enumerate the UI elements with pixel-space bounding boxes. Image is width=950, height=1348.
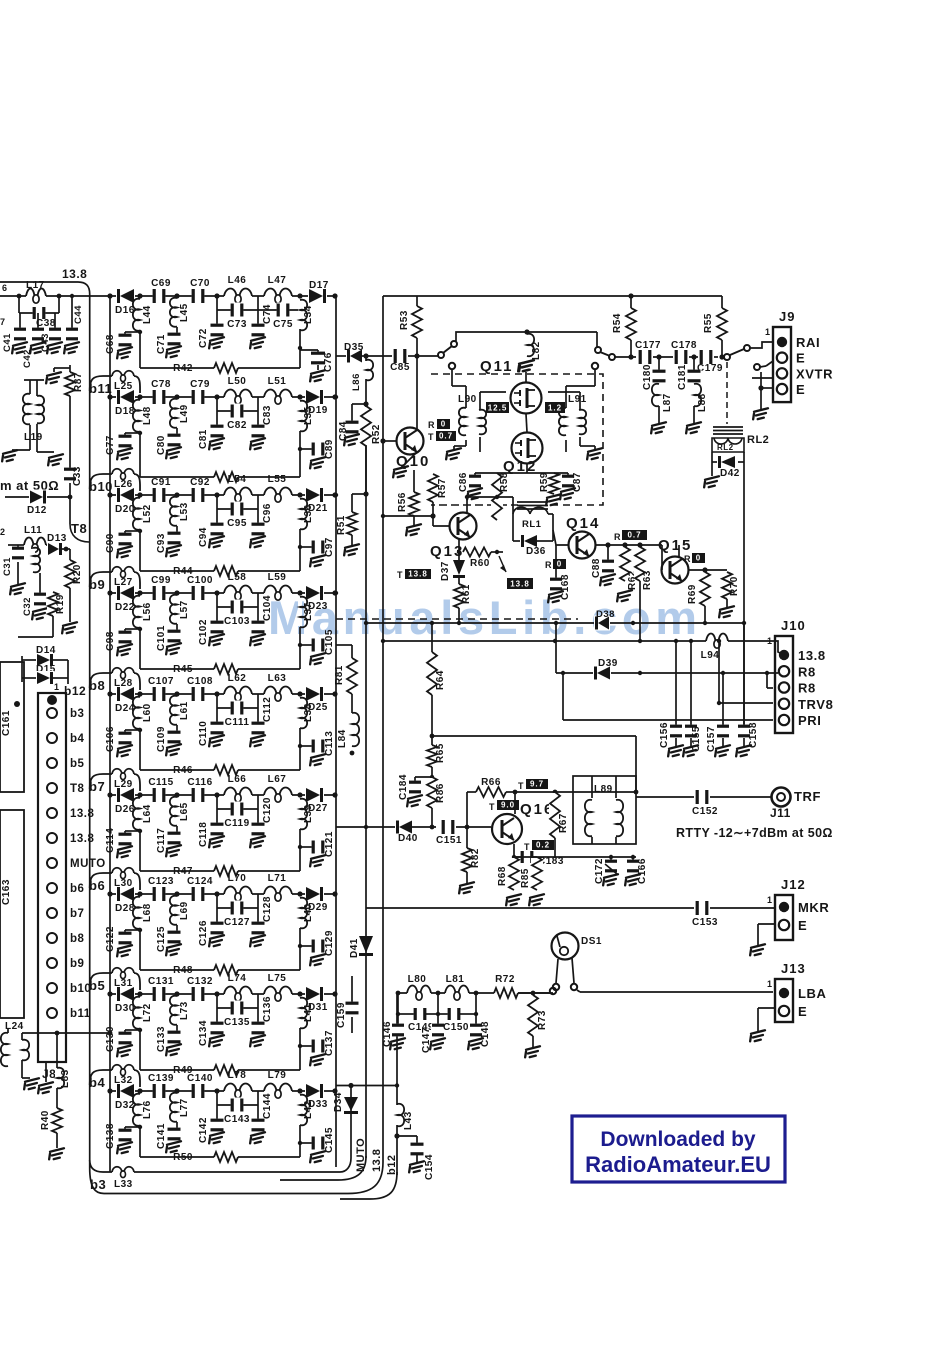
- ground: [546, 591, 565, 603]
- svg-text:C150: C150: [443, 1022, 469, 1033]
- resistor R62: [622, 542, 627, 547]
- capacitor C147: [437, 993, 439, 1026]
- svg-text:E: E: [796, 351, 805, 366]
- capacitor C91: [153, 487, 166, 503]
- ground: [248, 634, 267, 646]
- svg-text:1: 1: [767, 636, 773, 646]
- svg-text:J11: J11: [770, 806, 791, 820]
- transformer L89: [573, 776, 636, 844]
- capacitor C146: [397, 993, 399, 1014]
- inductor L83: [55, 1031, 60, 1036]
- svg-text:b11: b11: [70, 1008, 91, 1020]
- svg-text:R60: R60: [470, 558, 490, 569]
- ground: [457, 882, 476, 894]
- ground Q11 top: [525, 372, 527, 382]
- node: [174, 293, 179, 298]
- svg-text:R55: R55: [703, 313, 714, 333]
- diode D19: [305, 389, 324, 405]
- svg-text:7: 7: [0, 317, 6, 327]
- wire Q16 emitter: [513, 844, 515, 857]
- ground: [405, 795, 424, 807]
- capacitor C102: [216, 593, 218, 624]
- inductor L27 bead: [112, 567, 122, 572]
- resistor R42: [214, 362, 238, 374]
- svg-text:R87: R87: [73, 372, 84, 392]
- svg-text:C151: C151: [436, 835, 462, 846]
- wire C85 line: [366, 355, 392, 357]
- ground: [164, 643, 183, 655]
- inductor L57: [175, 596, 179, 623]
- svg-text:C156: C156: [659, 722, 670, 748]
- node b3: [90, 1160, 112, 1172]
- svg-text:L70: L70: [228, 873, 247, 884]
- svg-text:b9: b9: [70, 958, 84, 970]
- svg-text:R54: R54: [612, 313, 623, 333]
- capacitor C80: [176, 428, 178, 437]
- diode D13: [47, 542, 63, 556]
- svg-text:R: R: [614, 532, 621, 542]
- node: [531, 991, 536, 996]
- capacitor C71: [176, 327, 178, 336]
- capacitor C143 mid: [257, 1091, 259, 1105]
- inductor L29 bead: [112, 769, 122, 774]
- ground: [164, 346, 183, 358]
- node: [214, 394, 219, 399]
- node: [68, 495, 73, 500]
- ground: [308, 555, 327, 567]
- svg-text:L77: L77: [179, 1098, 190, 1117]
- resistor R63: [637, 542, 642, 547]
- inductor L17: [26, 294, 46, 298]
- wire J9 E2 switch: [754, 364, 760, 370]
- wire rail y623: [366, 622, 744, 624]
- resistor R53: [411, 307, 423, 337]
- svg-text:C73: C73: [227, 319, 247, 330]
- wire Q10 base: [380, 438, 385, 443]
- svg-text:C119: C119: [224, 818, 249, 829]
- wire J9 E4 ground: [758, 385, 763, 390]
- svg-text:C72: C72: [198, 328, 209, 348]
- inductor L43: [395, 1105, 399, 1125]
- svg-text:L68: L68: [142, 903, 153, 922]
- svg-text:C137: C137: [324, 1030, 335, 1056]
- resistor R19: [47, 593, 59, 615]
- relay RL2 coil: [712, 438, 744, 452]
- capacitor C116: [192, 787, 205, 803]
- wire: [299, 330, 301, 368]
- ground: [751, 408, 770, 420]
- svg-text:C131: C131: [148, 976, 174, 987]
- capacitor C184: [415, 776, 432, 778]
- svg-text:C126: C126: [198, 920, 209, 946]
- svg-text:b5: b5: [89, 978, 105, 993]
- resistor R46: [214, 764, 238, 776]
- svg-text:13.8: 13.8: [798, 648, 826, 663]
- wire riser to R66: [466, 792, 468, 827]
- svg-text:C96: C96: [262, 503, 273, 523]
- inductor L48: [138, 401, 142, 431]
- svg-text:L88: L88: [697, 393, 708, 412]
- svg-text:C125: C125: [156, 926, 167, 952]
- capacitor C103 mid: [257, 593, 259, 607]
- svg-text:C99: C99: [151, 575, 171, 586]
- svg-text:1: 1: [767, 895, 773, 905]
- node: [214, 590, 219, 595]
- svg-text:L42: L42: [303, 1100, 314, 1119]
- node row output: [332, 293, 337, 298]
- svg-text:R19: R19: [55, 594, 66, 614]
- svg-text:C120: C120: [262, 797, 273, 823]
- node: [214, 792, 219, 797]
- ground: [517, 360, 536, 372]
- inductor L80: [407, 991, 431, 995]
- svg-text:D34: D34: [333, 1092, 344, 1112]
- ground: [681, 745, 700, 757]
- svg-text:C81: C81: [198, 429, 209, 449]
- node: [430, 825, 435, 830]
- node: [214, 891, 219, 896]
- resistor R68: [508, 858, 520, 889]
- svg-text:C93: C93: [156, 533, 167, 553]
- wire MUTO vertical x366: [365, 356, 367, 1158]
- svg-text:L87: L87: [662, 393, 673, 412]
- svg-text:DS1: DS1: [581, 936, 602, 947]
- svg-text:C135: C135: [224, 1017, 250, 1028]
- ground: [45, 342, 64, 354]
- svg-text:b8: b8: [70, 933, 85, 945]
- wire row D20 main: [110, 494, 336, 496]
- node D35 out: [363, 353, 368, 358]
- inductor L87: [657, 385, 661, 405]
- svg-text:0.2: 0.2: [536, 841, 550, 850]
- capacitor C181: [693, 357, 695, 371]
- ground: [47, 1148, 66, 1160]
- ground: [466, 1038, 485, 1050]
- svg-text:MUTO: MUTO: [70, 858, 106, 870]
- svg-text:L52: L52: [142, 504, 153, 523]
- svg-text:9.0: 9.0: [501, 801, 515, 810]
- resistor R69: [702, 567, 707, 572]
- svg-text:C112: C112: [262, 697, 273, 722]
- node: [174, 394, 179, 399]
- diode D38: [594, 616, 610, 631]
- diode D26: [116, 787, 135, 803]
- capacitor C77: [125, 432, 140, 434]
- svg-text:R73: R73: [537, 1010, 548, 1030]
- diode D17: [308, 288, 327, 304]
- wire 13.8 bus corner: [0, 282, 90, 294]
- wire bus bottom corner: [90, 1162, 383, 1194]
- inductor L70: [224, 892, 252, 896]
- capacitor C88: [605, 542, 610, 547]
- inductor L46: [224, 294, 252, 298]
- svg-text:R86: R86: [435, 783, 446, 803]
- node b8: [90, 673, 112, 688]
- capacitor C158: [743, 623, 745, 727]
- svg-text:1: 1: [765, 327, 771, 337]
- value box 12.5 gain: [486, 402, 509, 413]
- wire top left feed: [0, 295, 110, 297]
- connector J8 pin b9: [47, 958, 57, 968]
- wire Q14 emitter rail: [596, 544, 662, 546]
- svg-text:C121: C121: [324, 831, 335, 857]
- svg-text:J8: J8: [42, 1067, 56, 1081]
- svg-text:T: T: [489, 802, 495, 812]
- svg-text:L35: L35: [303, 406, 314, 425]
- svg-text:C163: C163: [1, 879, 12, 905]
- node: [214, 293, 219, 298]
- svg-text:C76: C76: [323, 352, 334, 372]
- svg-text:b4: b4: [70, 733, 85, 745]
- svg-text:J12: J12: [781, 877, 806, 892]
- inductor L71: [264, 892, 292, 896]
- node: [638, 671, 642, 675]
- capacitor C73 mid: [257, 296, 259, 310]
- svg-text:b7: b7: [89, 779, 105, 794]
- inductor L40: [298, 899, 302, 927]
- svg-text:C89: C89: [324, 439, 335, 459]
- ground: [248, 337, 267, 349]
- svg-text:C158: C158: [748, 722, 759, 748]
- wire R87 to C33: [69, 396, 71, 470]
- node: [214, 1088, 219, 1093]
- inductor L64: [138, 799, 142, 829]
- diode D12: [29, 490, 47, 505]
- svg-text:R72: R72: [495, 974, 515, 985]
- capacitor C178: [675, 349, 688, 365]
- inductor L28 bead: [112, 668, 122, 673]
- svg-text:L54: L54: [228, 474, 247, 485]
- capacitor C137: [300, 1045, 312, 1047]
- resistor R70: [721, 573, 733, 598]
- inductor L39: [298, 800, 302, 828]
- svg-text:C142: C142: [198, 1117, 209, 1143]
- node: [430, 734, 435, 739]
- node b10: [90, 474, 112, 489]
- resistor R47: [214, 865, 238, 877]
- svg-text:R46: R46: [173, 765, 193, 776]
- svg-text:L36: L36: [303, 504, 314, 523]
- svg-text:R65: R65: [435, 743, 446, 763]
- wire row D22 main: [110, 592, 336, 594]
- capacitor C107: [153, 686, 166, 702]
- node row input: [107, 691, 112, 696]
- capacitor C43b: [54, 313, 56, 330]
- ground: [115, 644, 134, 656]
- wire bottom rail: [140, 769, 300, 771]
- wire row D30 main: [110, 993, 336, 995]
- ground: [717, 606, 736, 618]
- svg-text:C178: C178: [671, 340, 697, 351]
- svg-text:R51: R51: [336, 515, 347, 535]
- svg-text:C102: C102: [198, 619, 209, 645]
- capacitor C136: [257, 1008, 259, 1025]
- capacitor C125: [176, 925, 178, 934]
- svg-text:L19: L19: [24, 432, 43, 443]
- capacitor C81: [216, 397, 218, 428]
- diode D36: [513, 540, 521, 542]
- inductor L62: [224, 692, 252, 696]
- svg-text:C129: C129: [324, 930, 335, 956]
- capacitor C85: [394, 348, 407, 364]
- node: [297, 1088, 302, 1093]
- resistor row feedback: [214, 471, 238, 483]
- svg-text:C145: C145: [324, 1127, 335, 1153]
- ground: [308, 370, 327, 382]
- capacitor C98: [125, 628, 140, 630]
- ground: [115, 745, 134, 757]
- svg-text:R20: R20: [72, 564, 83, 584]
- svg-text:L86: L86: [351, 373, 362, 391]
- wire: [139, 1125, 141, 1157]
- node: [174, 691, 179, 696]
- wire Q16 collector: [514, 792, 516, 814]
- inductor L33 bead: [112, 1167, 122, 1172]
- ground: [585, 448, 604, 460]
- svg-text:L75: L75: [268, 973, 287, 984]
- node: [297, 691, 302, 696]
- wire L80 row: [397, 992, 553, 994]
- svg-text:C155: C155: [691, 726, 702, 752]
- ground: [527, 894, 546, 906]
- ground: [115, 347, 134, 359]
- resistor R48: [214, 964, 238, 976]
- wire TRV8 line: [717, 639, 721, 643]
- capacitor C87: [567, 473, 569, 477]
- resistor R45: [214, 663, 238, 675]
- svg-text:L65: L65: [179, 802, 190, 821]
- svg-text:C82: C82: [227, 420, 247, 431]
- svg-text:C69: C69: [151, 278, 171, 289]
- capacitor C148: [475, 993, 477, 1026]
- node C85 out: [414, 353, 419, 358]
- wire J13 E ground: [758, 1007, 775, 1009]
- svg-text:R: R: [428, 420, 435, 430]
- node: [137, 792, 142, 797]
- wire bottom rail: [140, 476, 300, 478]
- capacitor C38: [33, 306, 46, 320]
- svg-text:b8: b8: [89, 678, 105, 693]
- svg-text:C177: C177: [635, 340, 661, 351]
- node L86 bottom: [363, 401, 368, 406]
- svg-text:D35: D35: [344, 342, 364, 353]
- shield dashed box Q11 Q12: [431, 374, 603, 505]
- wire L24 to bus: [22, 1032, 110, 1034]
- resistor R40: [56, 1088, 58, 1108]
- svg-text:L17: L17: [26, 280, 45, 291]
- ground: [248, 1035, 267, 1047]
- inductor L75: [264, 992, 292, 996]
- svg-text:C33: C33: [72, 466, 83, 486]
- inductor L30 bead: [112, 868, 122, 873]
- svg-text:C71: C71: [156, 334, 167, 354]
- inductor L61: [175, 697, 179, 724]
- node row output: [332, 394, 337, 399]
- node row output: [332, 891, 337, 896]
- diode D39: [593, 666, 611, 681]
- inductor L44: [138, 300, 142, 330]
- svg-text:C75: C75: [273, 319, 293, 330]
- ground: [666, 745, 685, 757]
- capacitor C113: [300, 745, 312, 747]
- svg-text:L58: L58: [228, 572, 247, 583]
- capacitor C120: [257, 809, 259, 826]
- value box 1.2 gain: [545, 402, 565, 413]
- ground: [308, 754, 327, 766]
- capacitor C74: [257, 310, 259, 327]
- svg-text:L55: L55: [268, 474, 287, 485]
- capacitor C153: [696, 900, 709, 916]
- resistor R82: [466, 829, 468, 848]
- inductor L77: [175, 1094, 179, 1121]
- svg-text:J10: J10: [781, 618, 806, 633]
- connector J8 pin b3: [47, 708, 57, 718]
- connector J8 pin 13.8: [47, 808, 57, 818]
- svg-text:C110: C110: [198, 721, 209, 746]
- svg-text:1: 1: [767, 979, 773, 989]
- wire XVTR stub: [752, 377, 773, 379]
- wire T8 drop: [69, 497, 71, 524]
- capacitor C92: [192, 487, 205, 503]
- coil L11 secondary: [31, 549, 35, 571]
- capacitor C44: [71, 296, 73, 330]
- ground: [248, 438, 267, 450]
- capacitor C168: [555, 545, 557, 559]
- wire: [139, 928, 141, 970]
- resistor R87: [69, 365, 71, 372]
- inductor L42: [298, 1096, 302, 1124]
- ground: [115, 1142, 134, 1154]
- svg-text:C143: C143: [224, 1114, 250, 1125]
- capacitor C129: [300, 945, 312, 947]
- transformer L91: [564, 409, 568, 434]
- diode D22: [116, 585, 135, 601]
- diode D23: [305, 585, 324, 601]
- capacitor C127 mid: [257, 894, 259, 908]
- wire PRI line: [561, 671, 565, 675]
- transistor Q10: [397, 428, 424, 455]
- capacitor C124: [192, 886, 205, 902]
- svg-text:L50: L50: [228, 376, 247, 387]
- ground: [207, 836, 226, 848]
- wire L82 rail: [417, 355, 438, 357]
- ground: [60, 622, 79, 634]
- resistor R61: [458, 578, 460, 584]
- svg-text:L91: L91: [568, 394, 587, 405]
- svg-text:R59: R59: [539, 472, 550, 492]
- diode D20: [116, 487, 135, 503]
- svg-text:T: T: [397, 570, 403, 580]
- connector J8 pin MUTO: [47, 858, 57, 868]
- svg-text:b9: b9: [89, 577, 105, 592]
- node b7: [90, 774, 112, 789]
- svg-text:R82: R82: [470, 848, 481, 868]
- connector J9: [773, 327, 791, 402]
- transistor Q14: [569, 532, 596, 559]
- resistor R54: [630, 296, 632, 308]
- svg-text:b4: b4: [89, 1075, 105, 1090]
- capacitor C139: [153, 1083, 166, 1099]
- svg-text:C140: C140: [187, 1073, 213, 1084]
- capacitor C180: [658, 357, 660, 371]
- wire Q15 collector stub: [678, 545, 680, 557]
- svg-text:L51: L51: [268, 376, 287, 387]
- svg-text:D13: D13: [47, 533, 67, 544]
- svg-text:R64: R64: [435, 670, 446, 690]
- svg-text:b5: b5: [70, 758, 85, 770]
- svg-text:R81: R81: [334, 665, 345, 685]
- lamp DS1: [552, 933, 579, 960]
